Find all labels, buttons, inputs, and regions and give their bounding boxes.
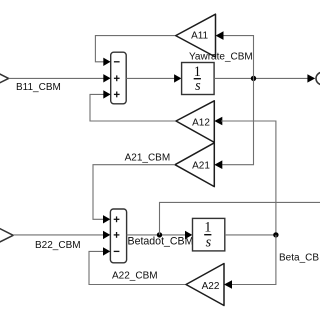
wire B11 to Sum1 xyxy=(9,77,104,79)
svg-text:B11_CBM: B11_CBM xyxy=(16,82,61,93)
svg-text:A21_CBM: A21_CBM xyxy=(125,152,171,163)
arrowhead into Sum2 input 3 xyxy=(103,247,110,255)
svg-text:s: s xyxy=(195,78,201,94)
wire Sum1 to Integrator1 xyxy=(126,77,175,79)
svg-text:A12: A12 xyxy=(192,118,210,129)
arrowhead into Integrator1 xyxy=(174,74,181,82)
svg-text:1: 1 xyxy=(204,219,211,235)
arrowhead into Sum1 input 3 xyxy=(103,90,110,98)
inport B22_CBM xyxy=(0,227,13,243)
gain A11 xyxy=(176,14,216,57)
sum Sum1 xyxy=(111,52,127,104)
arrowhead into Sum1 input 1 xyxy=(103,58,110,66)
arrowhead into Integrator2 xyxy=(185,231,192,239)
svg-text:B22_CBM: B22_CBM xyxy=(35,240,81,251)
arrowhead into gain A12 xyxy=(214,117,222,126)
wire A21 to Sum2 plus1 xyxy=(93,165,175,220)
junction yawrate node xyxy=(251,76,256,81)
wire Integrator1 to Out1 xyxy=(214,77,308,79)
wire yawrate vertical branch xyxy=(221,36,254,165)
wire B22 to Sum2 xyxy=(13,234,104,236)
sign plus (Sum2 input 1) xyxy=(114,216,120,222)
wire Integrator2 to junction xyxy=(225,234,276,236)
svg-text:Yawrate_CBM: Yawrate_CBM xyxy=(189,52,253,63)
junction betadot node xyxy=(157,232,162,237)
arrowhead into Sum1 input 2 xyxy=(103,74,110,82)
svg-text:A22: A22 xyxy=(202,281,220,292)
wire beta to A22 xyxy=(231,235,276,285)
svg-text:A21: A21 xyxy=(192,160,210,171)
integrator Yawrate_CBM xyxy=(182,63,215,95)
arrowhead into gain A22 xyxy=(224,280,232,289)
gain A21 xyxy=(175,143,214,187)
wire betadot branch to edge xyxy=(160,202,320,235)
wire Sum2 to Integrator2 xyxy=(127,234,186,236)
svg-text:A22_CBM: A22_CBM xyxy=(112,270,158,281)
svg-text:Betadot_CBM: Betadot_CBM xyxy=(128,235,194,247)
integrator Beta xyxy=(193,218,225,251)
junction beta node xyxy=(273,232,278,237)
arrowhead into Sum2 input 1 xyxy=(103,215,110,223)
svg-text:s: s xyxy=(206,234,212,250)
sign plus (Sum1 input 2) xyxy=(114,75,120,81)
arrowhead into gain A11 xyxy=(216,31,224,40)
svg-text:Beta_CB: Beta_CB xyxy=(279,253,319,264)
fraction bar Integrator1 xyxy=(194,78,201,80)
sign plus (Sum2 input 2) xyxy=(114,232,120,238)
label 1/s (Integrator2) xyxy=(204,219,211,250)
gain A12 xyxy=(176,101,214,143)
sign plus (Sum1 input 3) xyxy=(114,92,120,98)
inport B11_CBM xyxy=(0,72,9,85)
svg-text:A11: A11 xyxy=(191,31,208,42)
gain A22 xyxy=(186,264,224,306)
sign minus (Sum2 input 3) xyxy=(114,250,120,252)
wire beta vertical branch to A12 xyxy=(221,121,276,235)
arrowhead into gain A21 xyxy=(214,160,222,169)
wire A22 feedback to Sum2 minus xyxy=(89,251,186,284)
sign minus (Sum1 input 1) xyxy=(114,61,120,63)
outport Yawrate xyxy=(307,72,320,85)
label 1/s (Integrator1) xyxy=(194,64,201,94)
arrowhead into Sum2 input 2 xyxy=(103,231,110,239)
wire A12 feedback to Sum1 plus3 xyxy=(90,94,176,121)
sum Sum2 xyxy=(110,209,126,263)
fraction bar Integrator2 xyxy=(204,234,211,236)
wire A11 feedback to Sum1 minus xyxy=(95,36,175,62)
